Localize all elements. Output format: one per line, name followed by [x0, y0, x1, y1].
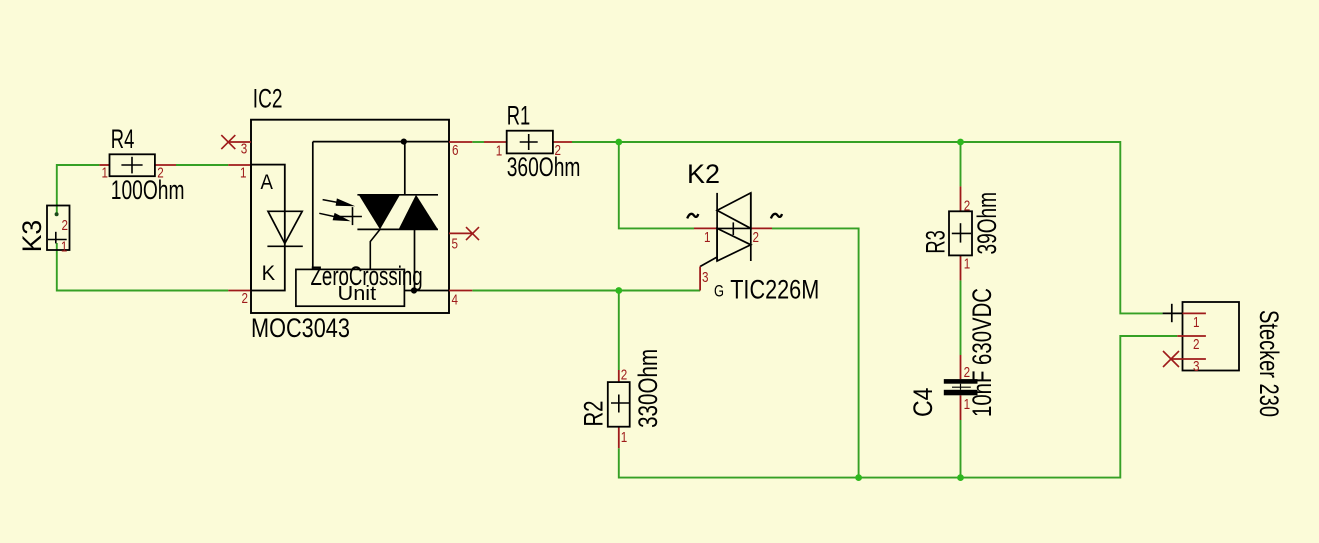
IC2 internal dot top	[401, 139, 407, 145]
svg-text:IC2: IC2	[253, 84, 283, 114]
K2 tilde left	[687, 214, 698, 219]
svg-text:100Ohm: 100Ohm	[111, 175, 185, 205]
svg-text:K: K	[262, 262, 276, 285]
svg-text:K3: K3	[17, 220, 47, 253]
resistor R1	[484, 131, 572, 154]
wire top net R1 to Stecker pin1	[572, 142, 1163, 313]
IC2 light arrow 2	[319, 213, 350, 221]
svg-text:1: 1	[704, 230, 711, 246]
svg-text:4: 4	[452, 293, 459, 309]
IC2 LED anode/cathode box	[251, 165, 285, 291]
junction dot top at R2 column	[615, 139, 622, 146]
IC2 photo-triac filled triangle down	[359, 195, 400, 230]
wire R4 pin2 to IC2 pin1	[176, 164, 228, 166]
wire top net to R3 pin2	[960, 142, 962, 186]
IC2 internal wire left vertical	[312, 142, 314, 270]
svg-text:330Ohm: 330Ohm	[633, 349, 663, 428]
op-to-coupler IC2 outer box	[251, 120, 449, 313]
IC2 LED diode	[267, 211, 302, 246]
IC2 pin 4 stub	[449, 290, 472, 292]
svg-text:10nF 630VDC: 10nF 630VDC	[967, 288, 997, 417]
svg-text:2: 2	[242, 291, 249, 307]
wire C4 pin1 to bottom net	[960, 420, 962, 478]
wire junction down to R2 pin2	[618, 291, 620, 371]
svg-text:3: 3	[1193, 359, 1200, 375]
IC2 internal vertical triac to pin4	[414, 229, 416, 290]
IC2 photo-triac top bar	[357, 194, 438, 196]
svg-text:1: 1	[1193, 315, 1200, 331]
svg-text:6: 6	[452, 143, 459, 159]
svg-text:R2: R2	[579, 401, 609, 427]
wire junction to triac K2 pin1	[619, 142, 694, 228]
svg-text:5: 5	[452, 237, 459, 253]
svg-text:R4: R4	[111, 124, 135, 154]
svg-text:G: G	[714, 282, 724, 301]
svg-text:2: 2	[964, 198, 971, 214]
svg-text:360Ohm: 360Ohm	[507, 152, 581, 182]
svg-text:R1: R1	[507, 100, 531, 130]
IC2 light arrow 1	[323, 198, 356, 206]
svg-text:1: 1	[102, 166, 109, 182]
junction dot bottom at C4 column	[957, 474, 964, 481]
IC2 photo-triac filled triangle up	[399, 195, 438, 230]
IC2 pin 6 stub	[449, 141, 472, 143]
capacitor C4	[944, 355, 978, 420]
svg-text:2: 2	[964, 365, 971, 381]
IC2 pin 2 stub	[228, 290, 251, 292]
junction dot bottom at triac column	[855, 474, 862, 481]
svg-text:C4: C4	[908, 388, 938, 418]
wire R2 pin1 to bottom net	[619, 336, 1178, 478]
connector K3	[47, 206, 70, 251]
svg-text:2: 2	[1193, 337, 1200, 353]
IC2 pin 5 stub with X	[449, 227, 479, 240]
triac K2	[694, 193, 772, 291]
resistor R4	[99, 154, 176, 176]
svg-text:TIC226M: TIC226M	[730, 274, 819, 304]
svg-text:2: 2	[157, 166, 164, 182]
svg-text:1: 1	[61, 240, 68, 256]
K2 tilde right	[771, 214, 782, 219]
svg-text:Unit: Unit	[338, 283, 377, 305]
IC2 origin cross	[340, 207, 362, 225]
wire R3 pin1 to C4 pin2	[960, 280, 962, 355]
svg-text:K2: K2	[687, 159, 720, 189]
svg-text:3: 3	[702, 270, 709, 286]
IC2 internal dot bottom	[411, 287, 417, 293]
resistor R2	[608, 370, 630, 448]
svg-text:1: 1	[621, 430, 628, 446]
IC2 ZeroCrossing Unit box	[296, 269, 405, 306]
IC2 photo-triac bottom bar	[357, 228, 438, 230]
svg-text:3: 3	[241, 141, 248, 157]
svg-text:2: 2	[555, 143, 562, 159]
svg-text:39Ohm: 39Ohm	[972, 192, 1002, 255]
IC2 pin 1 stub	[228, 164, 251, 166]
svg-text:A: A	[261, 171, 273, 194]
svg-text:MOC3043: MOC3043	[251, 313, 350, 343]
wire triac K2 pin2 to bottom net	[772, 228, 859, 477]
connector Stecker 230	[1163, 302, 1239, 371]
wire net left top from K3 to R4	[57, 165, 100, 214]
junction dot gate net	[615, 287, 622, 294]
IC2 internal wire top	[313, 141, 449, 143]
resistor R3	[949, 186, 972, 280]
wire IC2 pin6 to R1 pin1	[472, 141, 484, 143]
IC2 photo-triac gate bend	[370, 229, 380, 269]
wire IC2 pin4 to gate of K2	[472, 290, 700, 292]
wire net left bottom from K3 to IC2 pin2	[57, 243, 229, 291]
IC2 pin 3 stub with X	[221, 135, 251, 149]
svg-text:2: 2	[753, 230, 760, 246]
svg-text:Stecker 230: Stecker 230	[1254, 310, 1284, 417]
svg-text:R3: R3	[920, 230, 950, 254]
svg-text:1: 1	[496, 144, 503, 160]
svg-text:1: 1	[240, 166, 247, 182]
IC2 internal pin4 line	[404, 290, 449, 292]
svg-text:1: 1	[964, 256, 971, 272]
junction dot top at R3 column	[957, 139, 964, 146]
IC2 internal vertical to top dot	[404, 142, 406, 195]
svg-text:1: 1	[964, 397, 971, 413]
svg-text:2: 2	[62, 218, 69, 234]
svg-text:2: 2	[621, 367, 628, 383]
